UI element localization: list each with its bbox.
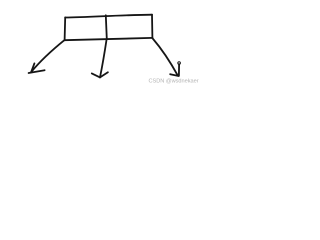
- box left edge: [64, 17, 67, 40]
- arrow 1 shaft (down-left): [31, 40, 65, 72]
- box bottom edge: [65, 38, 153, 40]
- arrow 2 shaft (down): [100, 39, 107, 77]
- svg-text:CSDN @wsdnekaer: CSDN @wsdnekaer: [149, 79, 199, 85]
- arrow 1 head: [31, 63, 34, 72]
- box divider: [106, 15, 107, 39]
- box right edge: [151, 15, 153, 38]
- arrow 3 shaft (down-right): [152, 38, 178, 76]
- arrow 3 head loop: [178, 62, 181, 65]
- arrow 3 head: [170, 74, 178, 76]
- arrow 2 head: [92, 73, 100, 77]
- box top edge: [65, 15, 152, 18]
